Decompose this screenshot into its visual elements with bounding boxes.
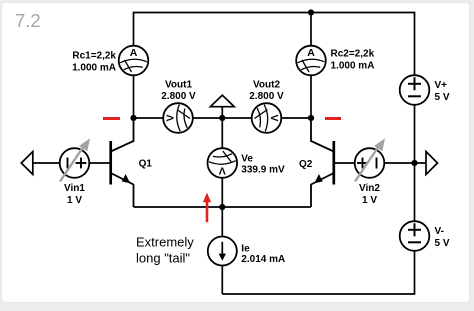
svg-text:A: A: [307, 47, 315, 59]
svg-text:Vout2: Vout2: [253, 80, 280, 91]
svg-text:Rc1=2,2k: Rc1=2,2k: [72, 50, 116, 61]
svg-text:339.9 mV: 339.9 mV: [241, 164, 285, 175]
svg-text:Vout1: Vout1: [165, 80, 192, 91]
svg-text:1.000 mA: 1.000 mA: [331, 61, 375, 72]
svg-text:A: A: [130, 47, 138, 59]
svg-text:5 V: 5 V: [435, 92, 450, 103]
svg-text:Extremely: Extremely: [136, 235, 194, 250]
svg-text:V: V: [268, 114, 280, 121]
svg-text:1 V: 1 V: [362, 195, 377, 206]
svg-text:V: V: [219, 164, 226, 176]
svg-text:5 V: 5 V: [435, 238, 450, 249]
svg-text:2.800 V: 2.800 V: [161, 91, 196, 102]
svg-text:V-: V-: [435, 226, 444, 237]
svg-text:long "tail": long "tail": [136, 251, 190, 266]
svg-text:1 V: 1 V: [67, 195, 82, 206]
svg-text:Ie: Ie: [241, 244, 250, 255]
svg-text:1.000 mA: 1.000 mA: [72, 62, 116, 73]
svg-text:7.2: 7.2: [15, 10, 41, 31]
svg-text:Q1: Q1: [139, 158, 153, 169]
svg-text:Ve: Ve: [241, 154, 253, 165]
svg-text:V+: V+: [435, 80, 448, 91]
svg-text:2.014 mA: 2.014 mA: [241, 254, 285, 265]
svg-text:Rc2=2,2k: Rc2=2,2k: [331, 49, 375, 60]
svg-text:Q2: Q2: [299, 159, 313, 170]
svg-text:V: V: [165, 114, 177, 121]
svg-text:2.800 V: 2.800 V: [249, 91, 284, 102]
svg-text:Vin1: Vin1: [64, 183, 85, 194]
svg-text:Vin2: Vin2: [359, 183, 380, 194]
